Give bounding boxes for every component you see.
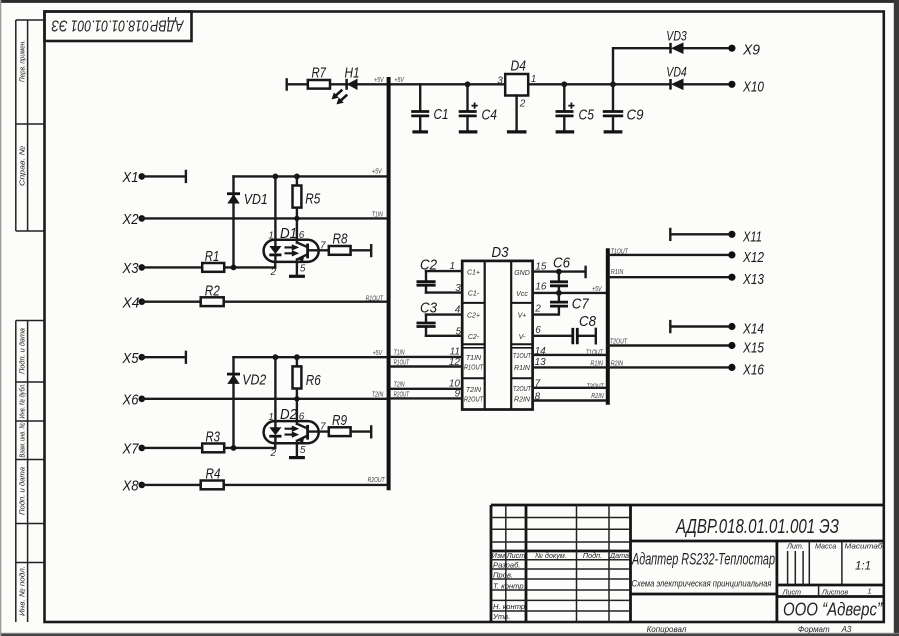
svg-text:V+: V+ bbox=[518, 313, 527, 320]
svg-text:T2OUT: T2OUT bbox=[610, 336, 627, 345]
wire X5 stub bbox=[142, 352, 186, 363]
svg-text:+5V: +5V bbox=[592, 284, 602, 293]
svg-text:№ докум.: № докум. bbox=[535, 551, 567, 560]
wire pin9 R2OUT bbox=[391, 397, 463, 399]
svg-text:T2OUT: T2OUT bbox=[587, 381, 604, 390]
svg-text:ООО “Адверс”: ООО “Адверс” bbox=[783, 599, 883, 620]
svg-text:VD1: VD1 bbox=[244, 191, 268, 208]
resistor R5 bbox=[293, 176, 302, 239]
svg-text:1:1: 1:1 bbox=[855, 561, 871, 573]
svg-text:R7: R7 bbox=[312, 65, 327, 82]
svg-text:Утв.: Утв. bbox=[492, 612, 510, 621]
svg-text:R2: R2 bbox=[205, 282, 221, 299]
wire pin16 Vcc to bus bbox=[533, 292, 606, 294]
svg-text:10: 10 bbox=[449, 378, 461, 389]
svg-text:1: 1 bbox=[268, 412, 274, 423]
capacitor C1 bbox=[411, 84, 429, 132]
svg-text:16: 16 bbox=[535, 281, 547, 292]
node X16 bbox=[728, 364, 735, 371]
svg-text:R3: R3 bbox=[206, 428, 221, 445]
svg-text:C1-: C1- bbox=[468, 291, 480, 298]
svg-text:+5V: +5V bbox=[374, 75, 384, 84]
svg-text:X6: X6 bbox=[122, 392, 139, 409]
node X3 bbox=[139, 264, 146, 271]
resistor R1 bbox=[142, 263, 275, 272]
svg-text:Разраб.: Разраб. bbox=[493, 561, 520, 570]
node X14 bbox=[728, 323, 735, 330]
svg-text:X1: X1 bbox=[122, 169, 139, 186]
svg-text:Vcc: Vcc bbox=[516, 291, 528, 298]
svg-text:6: 6 bbox=[299, 230, 305, 241]
svg-text:C2-: C2- bbox=[468, 334, 480, 341]
svg-text:X2: X2 bbox=[122, 211, 139, 228]
wire pin2 D2 riser bbox=[274, 443, 276, 448]
svg-text:Подп. и дата: Подп. и дата bbox=[17, 467, 26, 515]
svg-text:X14: X14 bbox=[742, 321, 764, 338]
svg-text:Масса: Масса bbox=[815, 542, 836, 551]
svg-text:T1OUT: T1OUT bbox=[586, 347, 603, 356]
svg-text:C1: C1 bbox=[434, 106, 449, 123]
svg-text:Копировал: Копировал bbox=[647, 625, 687, 634]
svg-text:4: 4 bbox=[455, 304, 461, 315]
svg-text:Изм: Изм bbox=[492, 551, 505, 560]
svg-text:C9: C9 bbox=[627, 106, 645, 123]
svg-text:D2: D2 bbox=[280, 406, 298, 423]
junction R6 bottom T2IN bbox=[294, 396, 299, 401]
capacitor C8 bbox=[573, 328, 578, 344]
wire branch to X9 bbox=[613, 48, 729, 84]
resistor R7 bbox=[308, 80, 330, 89]
svg-text:+5V: +5V bbox=[372, 167, 382, 176]
light arrows D2 bbox=[285, 426, 300, 438]
svg-text:7: 7 bbox=[535, 378, 541, 389]
ground bar pin5 D1 bbox=[289, 275, 305, 278]
resistor R6 bbox=[293, 357, 302, 421]
svg-text:R2OUT: R2OUT bbox=[368, 475, 385, 484]
LED H1 bbox=[329, 79, 357, 107]
wire pin11 T1IN bbox=[391, 356, 463, 358]
diode VD3 bbox=[671, 42, 684, 54]
svg-text:H1: H1 bbox=[345, 65, 360, 82]
svg-text:Лист: Лист bbox=[506, 551, 526, 560]
junction C6 top bbox=[556, 269, 562, 275]
svg-text:X8: X8 bbox=[122, 478, 139, 495]
junction pin1 D2 bbox=[273, 354, 279, 360]
svg-text:Н. контр.: Н. контр. bbox=[493, 602, 527, 611]
voltage regulator D4 bbox=[505, 74, 528, 132]
wire X1 stub bbox=[142, 171, 186, 182]
wire X14 stub bbox=[670, 321, 729, 332]
resistor R3 bbox=[142, 444, 275, 453]
svg-text:VD4: VD4 bbox=[666, 65, 687, 80]
node X12 bbox=[728, 251, 735, 258]
svg-text:C5: C5 bbox=[579, 106, 595, 123]
svg-text:T2IN: T2IN bbox=[372, 390, 384, 399]
svg-text:R1IN: R1IN bbox=[590, 359, 603, 368]
svg-text:T1OUT: T1OUT bbox=[611, 246, 628, 255]
wire X2 T1IN bbox=[142, 217, 387, 219]
svg-text:3: 3 bbox=[455, 283, 461, 294]
svg-text:C4: C4 bbox=[482, 106, 498, 123]
svg-text:C1+: C1+ bbox=[467, 270, 480, 277]
wire +5V lower feed bbox=[234, 356, 387, 358]
svg-text:1: 1 bbox=[531, 74, 537, 85]
junction C5 tap bbox=[561, 81, 567, 87]
svg-text:D4: D4 bbox=[511, 57, 527, 74]
capacitor C6 bbox=[550, 272, 568, 293]
wire +5V upper feed bbox=[234, 175, 387, 177]
svg-text:X5: X5 bbox=[122, 350, 139, 367]
junction VD2 anode X7 bbox=[231, 445, 237, 451]
svg-text:А3: А3 bbox=[841, 625, 852, 634]
svg-text:Дата: Дата bbox=[609, 551, 629, 560]
wire pin6 V- bbox=[533, 329, 596, 344]
wire pin1 D3 bbox=[426, 270, 462, 272]
svg-text:R2OUT: R2OUT bbox=[464, 397, 484, 404]
LED inside D2 bbox=[269, 421, 281, 443]
svg-text:X9: X9 bbox=[742, 42, 761, 59]
node X5 bbox=[139, 354, 146, 361]
svg-text:C7: C7 bbox=[572, 296, 590, 313]
svg-text:X10: X10 bbox=[742, 78, 764, 95]
svg-text:5: 5 bbox=[300, 445, 306, 456]
capacitor C2 bbox=[417, 271, 436, 293]
svg-text:R2IN: R2IN bbox=[514, 397, 531, 404]
svg-text:R1IN: R1IN bbox=[611, 267, 624, 276]
svg-text:Масштаб: Масштаб bbox=[845, 542, 884, 551]
svg-text:R1IN: R1IN bbox=[514, 365, 531, 372]
LED inside D1 bbox=[269, 240, 281, 262]
svg-text:1: 1 bbox=[868, 587, 872, 596]
svg-text:GND: GND bbox=[514, 270, 530, 277]
phototransistor D1 bbox=[297, 240, 308, 276]
ground bar pin5 D2 bbox=[289, 456, 305, 459]
svg-text:Перв. примен.: Перв. примен. bbox=[17, 40, 26, 82]
svg-text:5: 5 bbox=[456, 326, 462, 337]
resistor R4 bbox=[142, 481, 387, 490]
svg-text:C2+: C2+ bbox=[467, 313, 480, 320]
diode VD1 bbox=[227, 176, 240, 267]
svg-text:Подп.: Подп. bbox=[583, 551, 602, 560]
svg-text:Справ. №: Справ. № bbox=[17, 146, 26, 186]
svg-text:9: 9 bbox=[454, 389, 460, 400]
svg-text:2: 2 bbox=[270, 267, 277, 278]
svg-text:2: 2 bbox=[519, 99, 526, 110]
svg-text:R2OUT: R2OUT bbox=[394, 389, 410, 398]
node X6 bbox=[139, 396, 146, 403]
svg-text:13: 13 bbox=[535, 357, 547, 368]
node X8 bbox=[139, 482, 146, 489]
svg-text:Инв. № подл.: Инв. № подл. bbox=[17, 566, 26, 616]
node X13 bbox=[728, 274, 735, 281]
resistor R9 bbox=[329, 427, 371, 438]
wire pin10 T2IN bbox=[391, 388, 463, 390]
svg-text:Пров.: Пров. bbox=[493, 570, 513, 579]
svg-text:11: 11 bbox=[450, 346, 460, 357]
svg-text:1: 1 bbox=[449, 261, 455, 272]
svg-text:R4: R4 bbox=[206, 466, 221, 483]
svg-text:T2OUT: T2OUT bbox=[513, 386, 532, 393]
resistor R8 bbox=[329, 245, 371, 256]
svg-text:Листов: Листов bbox=[821, 587, 848, 596]
wire T2OUT to X15 bbox=[608, 344, 729, 346]
svg-text:X12: X12 bbox=[742, 249, 764, 266]
wire T1OUT to X12 bbox=[608, 254, 729, 256]
svg-text:6: 6 bbox=[299, 411, 305, 422]
svg-text:1: 1 bbox=[268, 231, 274, 242]
wire X11 stub bbox=[670, 229, 729, 240]
svg-text:R1OUT: R1OUT bbox=[394, 357, 410, 366]
svg-text:T2IN: T2IN bbox=[466, 387, 482, 394]
wire pin1 D2 to +5V bbox=[274, 357, 276, 421]
svg-text:АДВР.018.01.01.001 ЭЗ: АДВР.018.01.01.001 ЭЗ bbox=[675, 516, 839, 538]
svg-text:3: 3 bbox=[497, 76, 503, 87]
svg-text:X13: X13 bbox=[742, 271, 764, 288]
junction C4 tap bbox=[465, 81, 471, 87]
svg-text:T1IN: T1IN bbox=[372, 209, 384, 218]
svg-text:АДВР.018.01.01.001 ЭЗ: АДВР.018.01.01.001 ЭЗ bbox=[51, 17, 184, 34]
svg-text:X15: X15 bbox=[742, 340, 764, 357]
svg-text:R1: R1 bbox=[205, 248, 220, 265]
svg-text:C2: C2 bbox=[420, 256, 438, 273]
node X11 bbox=[728, 231, 735, 238]
bus +5V vertical group line bbox=[387, 77, 391, 490]
svg-text:Лист: Лист bbox=[782, 587, 802, 596]
wire pin8 R2IN to bus bbox=[533, 399, 606, 401]
node X10 bbox=[728, 81, 735, 88]
light arrows D1 bbox=[285, 244, 300, 256]
svg-text:X4: X4 bbox=[122, 295, 140, 312]
svg-text:R2IN: R2IN bbox=[591, 391, 604, 400]
svg-text:X11: X11 bbox=[742, 228, 762, 245]
svg-text:6: 6 bbox=[535, 325, 541, 336]
resistor R2 bbox=[142, 297, 387, 306]
wire base D2 to R9 bbox=[308, 430, 329, 432]
phototransistor D2 bbox=[297, 421, 308, 457]
wire pin15 GND bbox=[533, 267, 586, 277]
svg-text:T1OUT: T1OUT bbox=[513, 353, 532, 360]
svg-text:12: 12 bbox=[449, 357, 461, 368]
svg-text:V-: V- bbox=[519, 334, 526, 341]
svg-text:R8: R8 bbox=[333, 231, 349, 248]
svg-text:Адаптер RS232-Теплостар: Адаптер RS232-Теплостар bbox=[631, 550, 775, 569]
IC D3 body bbox=[462, 261, 533, 410]
svg-text:X7: X7 bbox=[122, 441, 139, 458]
svg-text:Лит.: Лит. bbox=[786, 542, 804, 551]
svg-text:R6: R6 bbox=[306, 372, 322, 389]
wire R1IN to X13 bbox=[608, 276, 729, 278]
svg-text:15: 15 bbox=[535, 262, 547, 273]
junction R5 bottom T1IN bbox=[294, 216, 299, 221]
svg-text:R9: R9 bbox=[332, 412, 348, 429]
node X2 bbox=[139, 215, 146, 222]
node X9 bbox=[728, 45, 735, 52]
node X4 bbox=[139, 298, 146, 305]
svg-text:C6: C6 bbox=[553, 254, 571, 271]
svg-text:Инв. № дубл.: Инв. № дубл. bbox=[17, 384, 26, 419]
wire X6 T2IN bbox=[142, 398, 387, 400]
capacitor C7 bbox=[533, 293, 568, 315]
wire pin1 D1 to +5V bbox=[274, 176, 276, 239]
junction VD1 anode X3 bbox=[231, 265, 237, 271]
wire pin4 D3 bbox=[426, 313, 462, 315]
svg-text:T1IN: T1IN bbox=[394, 348, 406, 357]
svg-text:VD2: VD2 bbox=[242, 371, 267, 388]
capacitor C9 bbox=[603, 84, 623, 132]
svg-text:R5: R5 bbox=[305, 191, 321, 208]
bus RS232 right vertical bbox=[606, 248, 610, 405]
wire pin5 D3 bbox=[426, 335, 462, 337]
svg-text:D1: D1 bbox=[280, 225, 297, 242]
svg-text:VD3: VD3 bbox=[666, 28, 687, 43]
optocoupler D2 body bbox=[264, 421, 319, 443]
wire pin12 R1OUT bbox=[391, 365, 463, 367]
node X15 bbox=[728, 342, 735, 349]
svg-text:Формат: Формат bbox=[798, 625, 830, 634]
svg-text:Схема электрическая принципиал: Схема электрическая принципиальная bbox=[632, 578, 772, 588]
svg-text:T2IN: T2IN bbox=[394, 379, 406, 388]
wire top +5V rail bbox=[287, 79, 729, 89]
svg-text:Взам. инв. №: Взам. инв. № bbox=[17, 423, 26, 458]
svg-text:R1OUT: R1OUT bbox=[464, 365, 484, 372]
capacitor C5 polarized bbox=[556, 84, 575, 132]
svg-text:Т. контр.: Т. контр. bbox=[493, 582, 526, 591]
node X7 bbox=[139, 445, 146, 452]
diode VD2 bbox=[227, 357, 240, 448]
svg-text:Подп. и дата: Подп. и дата bbox=[17, 328, 26, 374]
junction R6 top bbox=[294, 354, 300, 360]
svg-text:C3: C3 bbox=[420, 300, 438, 317]
svg-text:T1IN: T1IN bbox=[466, 355, 482, 362]
svg-text:2: 2 bbox=[534, 304, 541, 315]
wire pin3 D3 bbox=[426, 291, 462, 293]
svg-text:2: 2 bbox=[270, 448, 277, 459]
optocoupler D1 body bbox=[264, 240, 319, 262]
wire pin13 R1IN to X16 R2IN bbox=[533, 366, 729, 368]
svg-text:X3: X3 bbox=[122, 260, 139, 277]
svg-text:R1OUT: R1OUT bbox=[366, 293, 383, 302]
wire pin7 T2OUT to bus bbox=[533, 387, 606, 389]
junction C6 C7 bbox=[556, 290, 562, 296]
svg-text:X16: X16 bbox=[742, 361, 764, 378]
junction C9 branch bbox=[610, 81, 616, 87]
junction pin1 D1 bbox=[273, 174, 279, 180]
svg-text:R2IN: R2IN bbox=[611, 359, 624, 368]
diode VD4 bbox=[671, 79, 684, 91]
svg-text:D3: D3 bbox=[492, 244, 510, 261]
svg-text:8: 8 bbox=[535, 392, 541, 403]
svg-text:+5V: +5V bbox=[394, 75, 404, 84]
svg-text:+5V: +5V bbox=[373, 348, 383, 357]
wire base D1 to R8 bbox=[308, 249, 329, 251]
capacitor C4 polarized bbox=[459, 84, 478, 132]
wire pin2 D1 riser bbox=[274, 262, 276, 268]
svg-text:14: 14 bbox=[535, 346, 547, 357]
svg-text:C8: C8 bbox=[579, 313, 597, 330]
node X1 bbox=[139, 173, 146, 180]
wire pin14 T1OUT to bus bbox=[533, 354, 606, 356]
junction R5 top bbox=[294, 174, 300, 180]
capacitor C3 bbox=[417, 315, 436, 336]
svg-text:5: 5 bbox=[300, 264, 306, 275]
